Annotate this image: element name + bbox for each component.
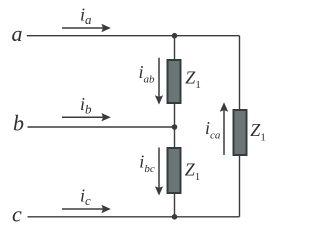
- svg-text:b: b: [13, 111, 24, 136]
- wire line b: [28, 126, 175, 128]
- current arrow i_ca: [220, 102, 228, 155]
- current arrow i_b: [62, 113, 111, 121]
- svg-text:Z1: Z1: [185, 68, 201, 92]
- svg-text:ic: ic: [80, 186, 91, 209]
- svg-text:a: a: [12, 21, 23, 46]
- current arrow i_c: [62, 205, 111, 213]
- wire line c: [28, 216, 240, 218]
- svg-text:c: c: [12, 202, 22, 227]
- impedance Z1 box (a-b branch): [168, 60, 181, 103]
- svg-text:ica: ica: [205, 118, 221, 142]
- current arrow i_a: [62, 24, 111, 32]
- svg-text:ibc: ibc: [139, 151, 155, 175]
- junction node a-branch: [172, 33, 178, 39]
- impedance Z1 box (c-a branch): [234, 110, 247, 155]
- wire line a: [27, 35, 240, 37]
- current arrow i_ab: [155, 58, 163, 105]
- junction node b-branch: [172, 124, 178, 130]
- svg-text:Z1: Z1: [185, 160, 201, 184]
- wire right branch (a-c vertical): [239, 36, 241, 217]
- wire middle branch (a-b-c vertical): [174, 36, 176, 217]
- current arrow i_bc: [155, 148, 163, 196]
- junction node c-branch: [172, 214, 178, 220]
- impedance Z1 box (b-c branch): [168, 148, 181, 193]
- svg-text:iab: iab: [139, 62, 156, 86]
- svg-text:ia: ia: [80, 5, 92, 28]
- svg-text:Z1: Z1: [250, 120, 266, 144]
- svg-text:ib: ib: [80, 94, 92, 117]
